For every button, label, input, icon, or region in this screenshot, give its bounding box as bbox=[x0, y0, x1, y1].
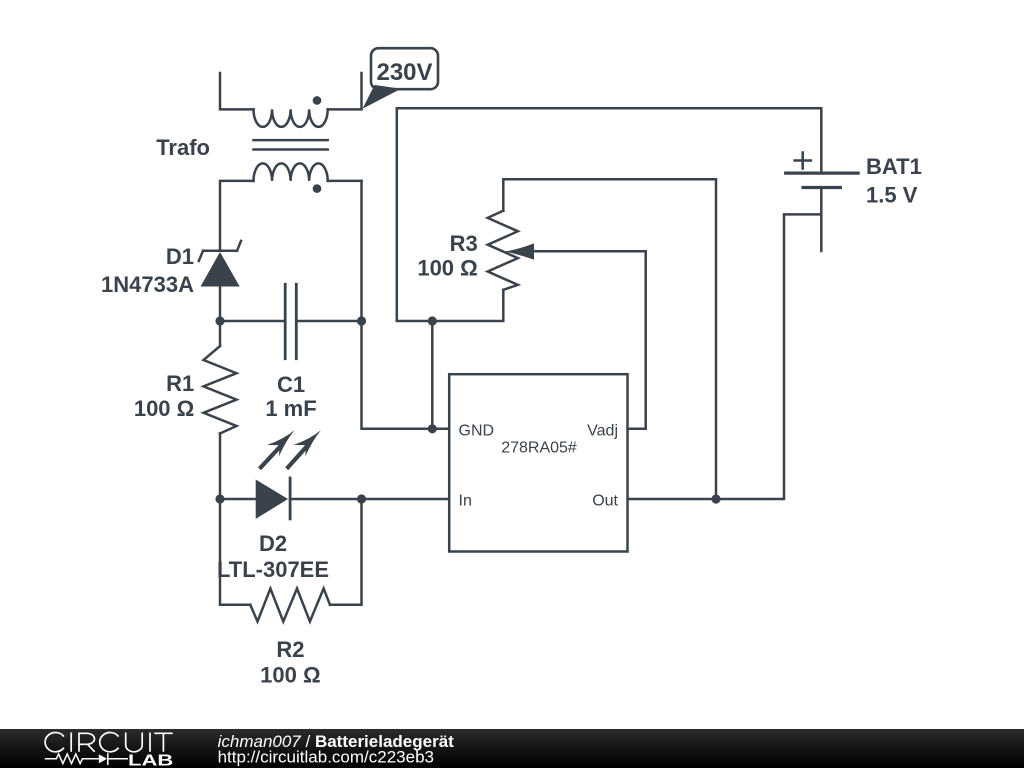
wire secondary right bbox=[328, 180, 362, 183]
wire R1 to LED row to R2 bbox=[220, 434, 250, 605]
logo CIRCUIT bbox=[45, 733, 173, 752]
potentiometer R3 zigzag bbox=[488, 211, 518, 290]
svg-text:100 Ω: 100 Ω bbox=[134, 396, 194, 421]
wire LED anode bbox=[220, 498, 256, 501]
wire right rail to GND row bbox=[362, 181, 450, 429]
svg-text:In: In bbox=[459, 493, 472, 510]
node: R3 bottom row junction bbox=[428, 316, 437, 325]
230V callout tail bbox=[363, 85, 402, 109]
logo resistor-diode line bbox=[45, 753, 128, 765]
LED arrow 1 bbox=[258, 430, 295, 470]
wire R2 right up to LED row bbox=[330, 499, 362, 605]
wire LED cathode to IC In bbox=[290, 498, 449, 501]
zener diode D1 triangle bbox=[201, 252, 240, 287]
svg-text:278RA05#: 278RA05# bbox=[501, 439, 577, 456]
transformer primary polarity dot bbox=[313, 96, 322, 105]
wire D1 to node bbox=[219, 287, 222, 347]
LED arrow 2 bbox=[285, 430, 321, 470]
node: C1 right junction bbox=[357, 316, 366, 325]
svg-text:1N4733A: 1N4733A bbox=[101, 272, 194, 297]
svg-text:http://circuitlab.com/c223eb3: http://circuitlab.com/c223eb3 bbox=[218, 747, 434, 766]
battery plus sign bbox=[795, 153, 811, 169]
resistor R1 zigzag bbox=[204, 346, 237, 434]
transformer core bbox=[254, 140, 328, 149]
svg-text:100 Ω: 100 Ω bbox=[260, 663, 320, 688]
wire R3 top lead to out node bbox=[503, 179, 716, 499]
svg-text:R2: R2 bbox=[276, 637, 304, 662]
potentiometer R3 wiper arrow bbox=[505, 243, 535, 259]
wire C1 row right bbox=[296, 320, 361, 323]
transformer secondary polarity dot bbox=[313, 184, 322, 193]
wire rail down to R3 bottom row bbox=[397, 108, 504, 321]
svg-text:D2: D2 bbox=[259, 531, 287, 556]
svg-text:R1: R1 bbox=[166, 371, 194, 396]
svg-text:1 mF: 1 mF bbox=[265, 396, 316, 421]
node: D1/R1/C1 junction bbox=[215, 316, 224, 325]
wire primary left bbox=[220, 73, 254, 109]
LED D2 cathode bar bbox=[289, 478, 292, 519]
svg-text:LAB: LAB bbox=[128, 752, 173, 768]
svg-text:1.5 V: 1.5 V bbox=[866, 183, 918, 208]
battery BAT1 long plate bbox=[786, 172, 858, 175]
svg-text:230V: 230V bbox=[376, 59, 432, 86]
IC U1 box 278RA05# bbox=[449, 374, 627, 551]
resistor R2 zigzag bbox=[250, 589, 330, 622]
svg-text:Vadj: Vadj bbox=[587, 422, 618, 439]
svg-text:GND: GND bbox=[459, 422, 495, 439]
zener diode D1 bar bbox=[199, 241, 241, 261]
svg-text:Out: Out bbox=[592, 493, 618, 510]
wire secondary left bbox=[220, 181, 254, 251]
svg-text:C1: C1 bbox=[277, 372, 305, 397]
wire Out row to battery minus bbox=[628, 214, 822, 499]
node: LED row left junction bbox=[215, 494, 224, 503]
svg-text:LTL-307EE: LTL-307EE bbox=[217, 557, 329, 582]
battery BAT1 short plate bbox=[803, 186, 840, 189]
svg-text:R3: R3 bbox=[450, 231, 478, 256]
node: LED row right junction bbox=[357, 494, 366, 503]
svg-text:D1: D1 bbox=[166, 244, 194, 269]
svg-text:100 Ω: 100 Ω bbox=[417, 256, 477, 281]
svg-text:Trafo: Trafo bbox=[156, 135, 210, 160]
node: Out row junction bbox=[711, 494, 720, 503]
wire R3 wiper to Vadj bbox=[526, 251, 646, 428]
wire primary right bbox=[328, 73, 362, 109]
node: GND row junction bbox=[428, 424, 437, 433]
capacitor C1 plates bbox=[285, 284, 296, 358]
LED D2 triangle bbox=[256, 480, 288, 519]
svg-text:BAT1: BAT1 bbox=[866, 154, 922, 179]
transformer secondary coil bbox=[254, 163, 328, 181]
230V callout box bbox=[371, 48, 438, 89]
wire R3 bottom branch down bbox=[431, 321, 434, 429]
transformer T primary coil bbox=[254, 109, 328, 127]
battery BAT1 lead bbox=[820, 188, 823, 252]
wire C1 row left bbox=[220, 320, 285, 323]
wire top rail bbox=[397, 108, 822, 173]
